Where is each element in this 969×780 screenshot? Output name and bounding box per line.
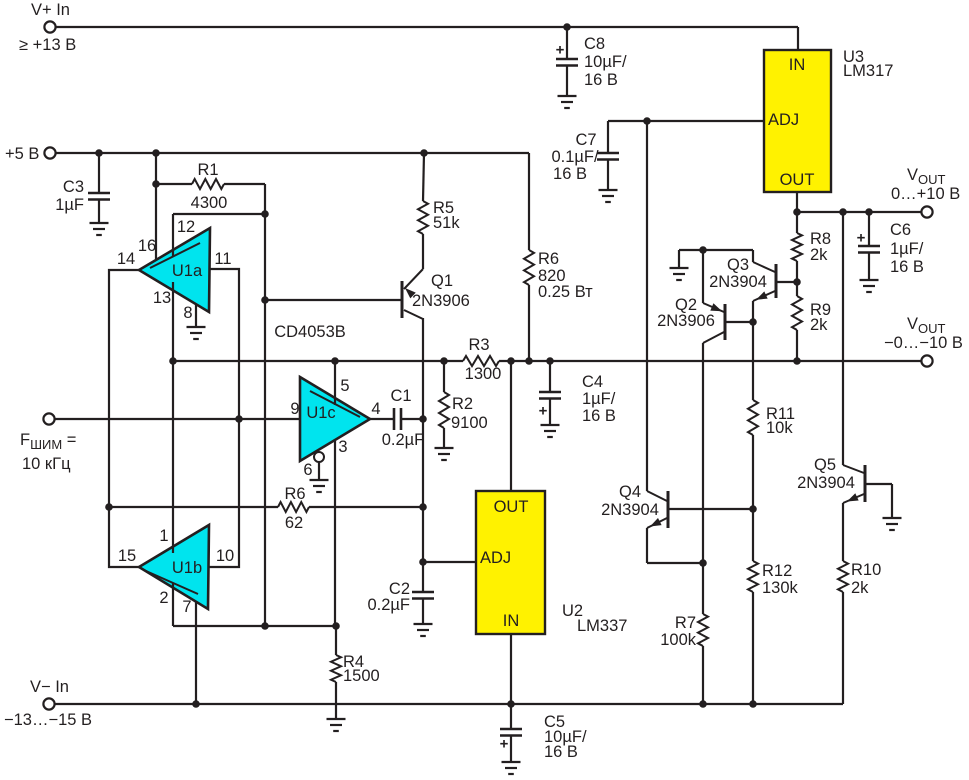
svg-text:100k: 100k [660, 631, 697, 649]
svg-text:R6: R6 [284, 485, 305, 503]
svg-text:16 В: 16 В [890, 258, 924, 276]
svg-text:R1: R1 [197, 161, 218, 179]
svg-text:0.25 Вт: 0.25 Вт [538, 283, 593, 301]
svg-text:9: 9 [290, 400, 299, 418]
svg-text:10µF/: 10µF/ [584, 53, 627, 71]
svg-text:R10: R10 [851, 561, 881, 579]
svg-text:13: 13 [153, 289, 171, 307]
svg-text:U1b: U1b [172, 559, 202, 577]
svg-text:R2: R2 [452, 395, 473, 413]
svg-text:C3: C3 [63, 178, 84, 196]
svg-text:4300: 4300 [191, 194, 228, 212]
svg-text:Q4: Q4 [619, 483, 641, 501]
svg-text:1µF: 1µF [55, 196, 84, 214]
svg-text:+: + [857, 230, 866, 247]
svg-text:+: + [500, 736, 509, 753]
svg-text:1µF/: 1µF/ [582, 390, 616, 408]
svg-text:2N3904: 2N3904 [709, 273, 767, 291]
svg-text:10: 10 [216, 547, 234, 565]
svg-text:9100: 9100 [451, 414, 488, 432]
svg-text:≥ +13 В: ≥ +13 В [19, 36, 76, 54]
svg-text:16 В: 16 В [544, 743, 578, 761]
svg-text:11: 11 [214, 250, 231, 268]
svg-text:ADJ: ADJ [480, 549, 511, 567]
svg-text:12: 12 [177, 218, 195, 236]
svg-text:V+ In: V+ In [31, 1, 70, 19]
svg-text:OUT: OUT [780, 171, 815, 189]
svg-text:U1a: U1a [172, 262, 203, 280]
svg-text:−0…−10 В: −0…−10 В [884, 334, 963, 352]
svg-text:R12: R12 [762, 562, 792, 580]
svg-text:16 В: 16 В [584, 71, 618, 89]
svg-text:16 В: 16 В [553, 165, 587, 183]
svg-text:14: 14 [117, 250, 135, 268]
svg-text:2k: 2k [810, 316, 828, 334]
svg-text:1: 1 [159, 527, 168, 545]
svg-text:1300: 1300 [465, 365, 502, 383]
svg-text:3: 3 [338, 438, 347, 456]
svg-text:OUT: OUT [494, 498, 529, 516]
svg-text:62: 62 [285, 514, 303, 532]
svg-text:2: 2 [159, 589, 168, 607]
svg-text:2k: 2k [810, 246, 828, 264]
svg-text:C6: C6 [890, 221, 911, 239]
svg-text:LM337: LM337 [577, 617, 627, 635]
svg-text:Q1: Q1 [431, 272, 453, 290]
svg-text:−13…−15 В: −13…−15 В [4, 711, 92, 729]
svg-text:V− In: V− In [30, 678, 69, 696]
svg-text:C1: C1 [390, 387, 411, 405]
svg-text:Q5: Q5 [814, 456, 836, 474]
svg-text:16: 16 [138, 237, 156, 255]
svg-text:1µF/: 1µF/ [890, 240, 924, 258]
svg-text:IN: IN [503, 612, 520, 630]
svg-text:+: + [556, 42, 565, 59]
svg-text:15: 15 [118, 547, 136, 565]
svg-text:2k: 2k [851, 579, 869, 597]
svg-text:LM317: LM317 [843, 62, 893, 80]
svg-text:4: 4 [371, 400, 380, 418]
svg-text:+5 В: +5 В [5, 145, 39, 163]
svg-text:0…+10 В: 0…+10 В [891, 185, 960, 203]
svg-text:1500: 1500 [343, 667, 380, 685]
svg-text:C7: C7 [575, 131, 596, 149]
svg-text:2N3904: 2N3904 [601, 501, 659, 519]
svg-text:2N3904: 2N3904 [797, 474, 855, 492]
svg-text:130k: 130k [762, 579, 799, 597]
svg-text:C8: C8 [584, 35, 605, 53]
svg-text:U1c: U1c [306, 404, 335, 422]
svg-text:6: 6 [303, 461, 312, 479]
svg-text:5: 5 [340, 377, 349, 395]
svg-text:R3: R3 [468, 336, 489, 354]
svg-text:16 В: 16 В [582, 407, 616, 425]
svg-text:7: 7 [182, 598, 191, 616]
svg-text:10 кГц: 10 кГц [22, 455, 71, 473]
svg-text:Q3: Q3 [727, 256, 749, 274]
svg-text:C4: C4 [582, 373, 603, 391]
svg-text:R7: R7 [675, 614, 696, 632]
svg-text:IN: IN [789, 56, 806, 74]
svg-text:ADJ: ADJ [768, 111, 799, 129]
svg-text:51k: 51k [433, 214, 460, 232]
svg-text:+: + [539, 403, 548, 420]
svg-text:CD4053В: CD4053В [274, 323, 346, 341]
svg-text:0.2µF: 0.2µF [367, 596, 410, 614]
svg-text:0.2µF: 0.2µF [382, 431, 425, 449]
svg-text:0.1µF/: 0.1µF/ [551, 148, 599, 166]
svg-text:R6: R6 [538, 250, 559, 268]
svg-text:10k: 10k [766, 419, 793, 437]
svg-text:2N3906: 2N3906 [657, 312, 715, 330]
svg-text:2N3906: 2N3906 [412, 292, 470, 310]
svg-text:8: 8 [183, 304, 192, 322]
